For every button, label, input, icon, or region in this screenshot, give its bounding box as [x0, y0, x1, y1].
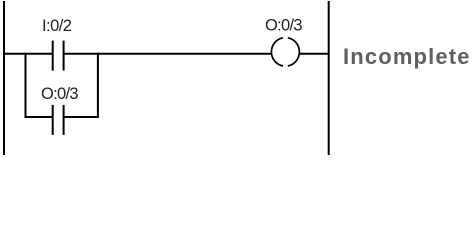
svg-text:O:0/3: O:0/3 — [265, 17, 302, 35]
wire rung1 left segment — [3, 53, 52, 55]
left power rail — [3, 1, 5, 155]
coil OTE O:0/3 — [271, 38, 299, 66]
wire rung2 right segment — [65, 116, 99, 118]
svg-text:O:0/3: O:0/3 — [41, 85, 78, 103]
wire rung1 middle segment — [65, 53, 272, 55]
right power rail — [328, 1, 330, 155]
contact XIC O:0/3 — [53, 105, 64, 135]
svg-text:I:0/2: I:0/2 — [42, 17, 72, 35]
branch left vertical wire — [25, 53, 27, 118]
wire rung1 right segment — [300, 53, 330, 55]
contact XIC I:0/2 — [53, 41, 64, 71]
branch right vertical wire — [97, 53, 99, 118]
wire rung2 left segment — [25, 116, 53, 118]
svg-text:Incomplete: Incomplete — [343, 44, 471, 69]
